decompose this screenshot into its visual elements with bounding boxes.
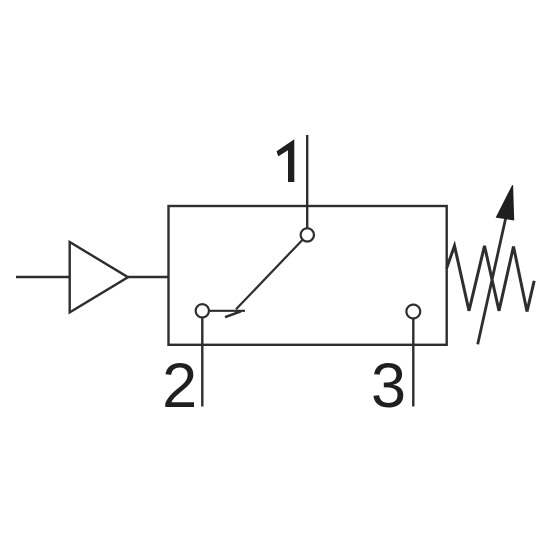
svg-text:2: 2: [162, 351, 197, 421]
svg-text:3: 3: [371, 351, 406, 421]
